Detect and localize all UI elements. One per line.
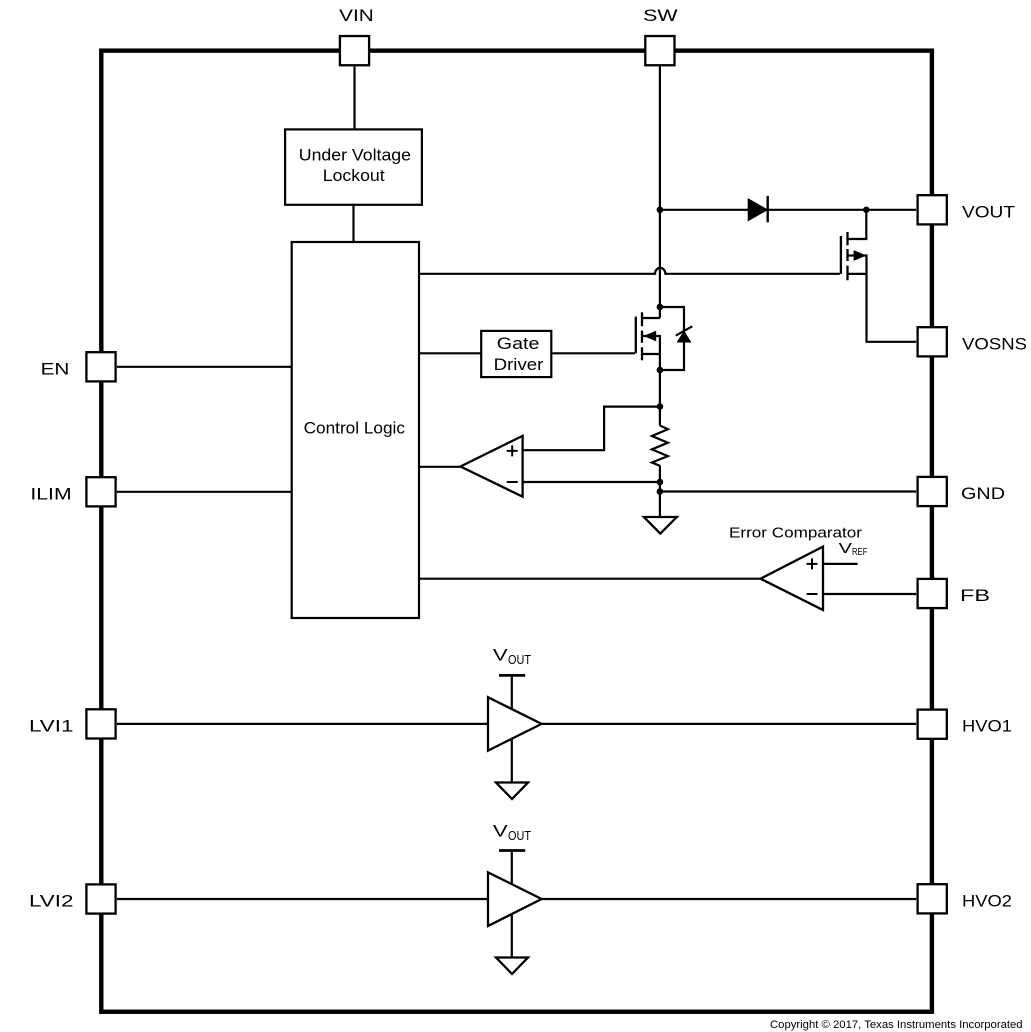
svg-text:Driver: Driver xyxy=(494,355,544,374)
svg-text:Copyright © 2017, Texas Instru: Copyright © 2017, Texas Instruments Inco… xyxy=(770,1019,1023,1031)
svg-text:SW: SW xyxy=(643,6,677,25)
svg-text:OUT: OUT xyxy=(508,828,531,843)
svg-text:LVI2: LVI2 xyxy=(29,892,73,911)
svg-text:EN: EN xyxy=(41,359,70,378)
svg-text:HVO2: HVO2 xyxy=(962,891,1012,910)
svg-text:REF: REF xyxy=(852,546,867,558)
svg-text:V: V xyxy=(493,646,509,665)
svg-text:ILIM: ILIM xyxy=(30,484,71,503)
svg-text:Error Comparator: Error Comparator xyxy=(729,524,862,541)
svg-text:OUT: OUT xyxy=(508,652,531,667)
svg-text:Lockout: Lockout xyxy=(323,166,385,185)
svg-text:Gate: Gate xyxy=(497,334,540,353)
svg-text:HVO1: HVO1 xyxy=(962,717,1012,736)
svg-text:GND: GND xyxy=(961,484,1005,503)
svg-text:VOUT: VOUT xyxy=(962,202,1015,221)
svg-text:FB: FB xyxy=(960,586,990,605)
svg-text:Control Logic: Control Logic xyxy=(304,418,406,437)
svg-text:V: V xyxy=(493,822,509,841)
svg-text:Under Voltage: Under Voltage xyxy=(299,145,411,164)
svg-text:VIN: VIN xyxy=(339,6,374,25)
svg-text:LVI1: LVI1 xyxy=(29,716,73,735)
svg-text:V: V xyxy=(839,540,852,557)
svg-text:VOSNS: VOSNS xyxy=(962,334,1027,353)
